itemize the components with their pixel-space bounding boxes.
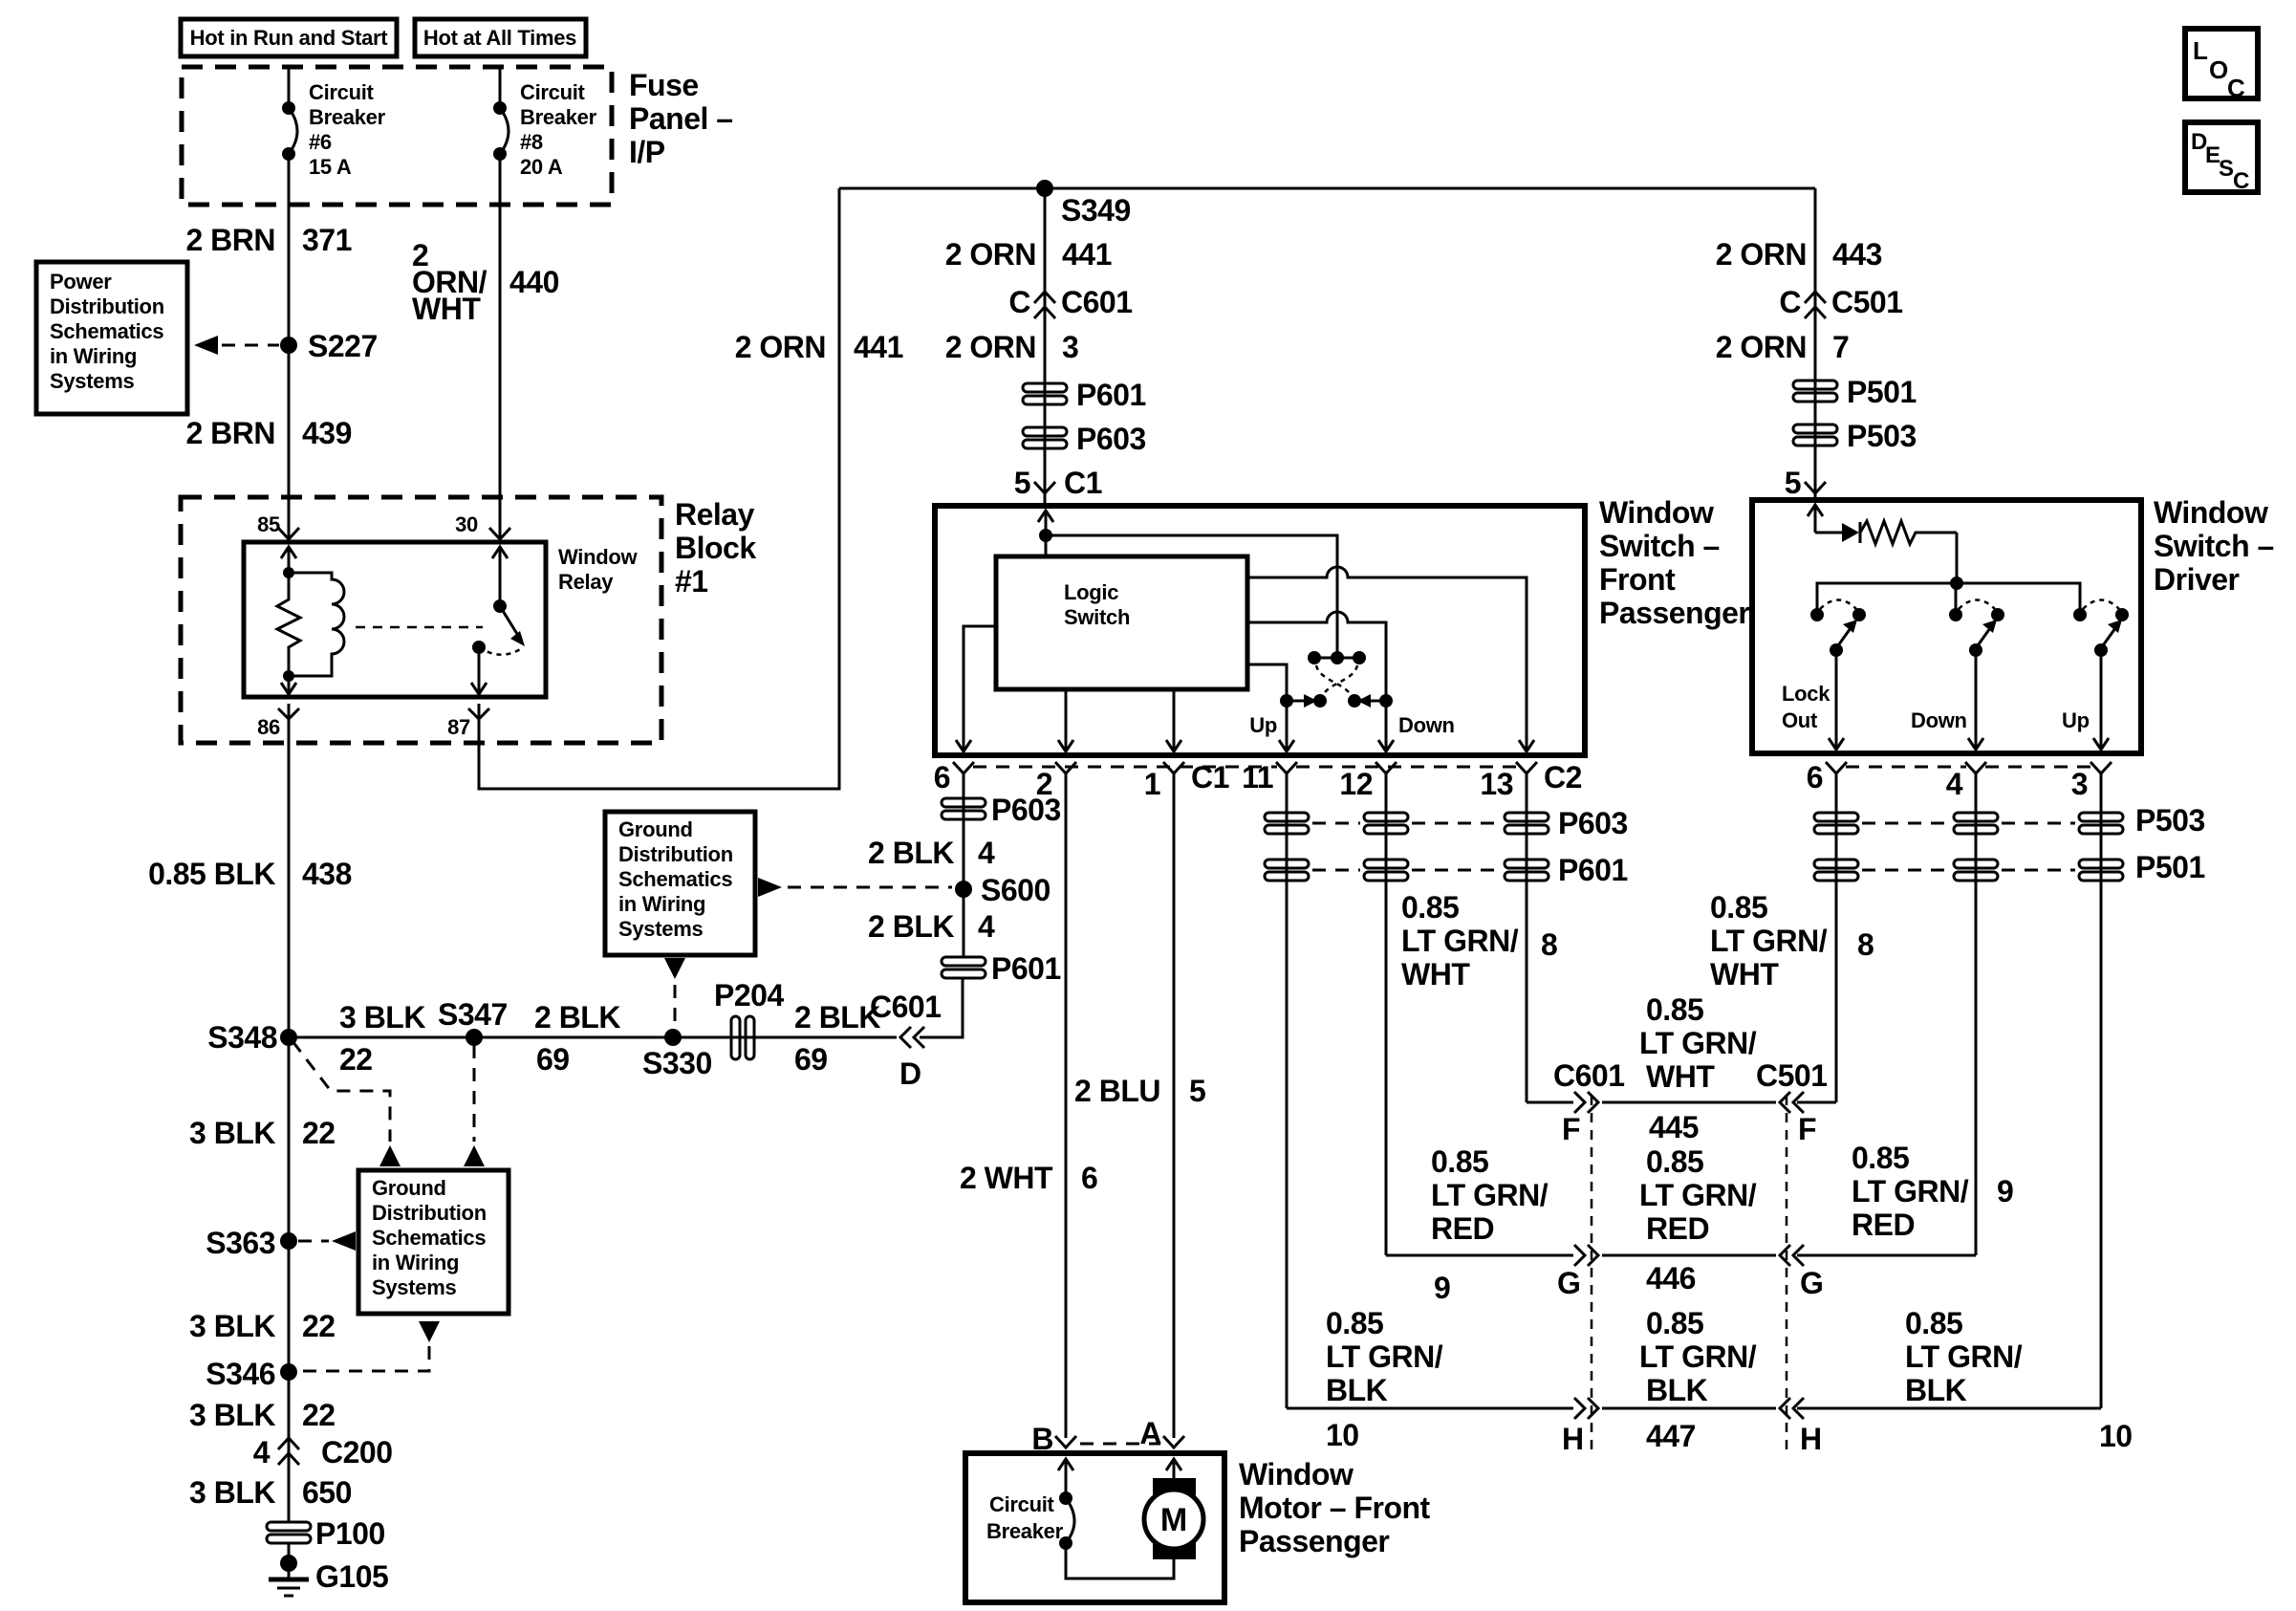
splice S363 xyxy=(206,1226,297,1260)
dashed link P601 row (passenger) xyxy=(1312,869,1360,872)
svg-text:in Wiring: in Wiring xyxy=(618,892,705,916)
row F chevrons C601 xyxy=(1574,1092,1598,1113)
svg-text:C1: C1 xyxy=(1064,466,1102,500)
svg-text:Up: Up xyxy=(1249,713,1277,737)
svg-text:4: 4 xyxy=(1946,767,1963,801)
svg-text:S227: S227 xyxy=(308,329,378,363)
reference arrow to power distribution box xyxy=(194,336,279,355)
svg-text:G105: G105 xyxy=(315,1559,388,1594)
ground bus wire S348 to C601 xyxy=(289,1036,897,1039)
svg-text:9: 9 xyxy=(1997,1174,2013,1208)
svg-text:S363: S363 xyxy=(206,1226,275,1260)
top feed wire S349 bus xyxy=(839,187,1815,190)
svg-text:Out: Out xyxy=(1782,708,1818,732)
box "Ground Distribution Schematics in Wiring Systems" (lower) xyxy=(358,1170,509,1314)
svg-text:2 ORN: 2 ORN xyxy=(1716,237,1807,272)
driver pin 3 chevron and label xyxy=(2071,762,2112,801)
wire: logic switch to pin 11 xyxy=(1247,664,1287,751)
svg-text:Distribution: Distribution xyxy=(618,842,733,866)
wire: S349 bus down to driver switch xyxy=(1814,188,1817,500)
relay pin 87 exit arrow xyxy=(471,654,487,694)
svg-text:C501: C501 xyxy=(1756,1058,1828,1093)
svg-text:Window: Window xyxy=(1599,495,1714,530)
pin 13 chevron and label, C2 xyxy=(1480,760,1582,801)
svg-text:G: G xyxy=(1800,1266,1823,1300)
svg-text:Systems: Systems xyxy=(618,917,703,941)
row H chevrons C601 xyxy=(1574,1398,1598,1419)
svg-text:3 BLK: 3 BLK xyxy=(189,1309,275,1343)
splice S330 xyxy=(642,1029,712,1080)
relay coil resistor xyxy=(277,567,300,682)
svg-text:S346: S346 xyxy=(206,1357,275,1391)
wire label 0.85 LT GRN/WHT 8 (pin 13) xyxy=(1401,890,1557,991)
wire label 2 BLK 69 (bus) xyxy=(534,1000,620,1077)
wire label 2 ORN 441 (riser) xyxy=(735,330,903,364)
motor cavity A xyxy=(1139,1416,1184,1450)
svg-text:Systems: Systems xyxy=(372,1275,456,1299)
row H chevrons C501 xyxy=(1780,1398,1804,1419)
splice S227 xyxy=(280,329,378,363)
svg-text:WHT: WHT xyxy=(412,292,481,326)
down switch (driver) xyxy=(1949,600,2004,658)
svg-text:10: 10 xyxy=(1326,1418,1359,1452)
label "Window Switch - Front Passenger" xyxy=(1599,495,1749,630)
wire label 0.85 LT GRN/BLK 447 (center) xyxy=(1639,1306,1757,1407)
svg-text:L: L xyxy=(2193,36,2208,65)
label "Window Relay" xyxy=(558,545,638,594)
connector C601 cavity D xyxy=(870,990,942,1091)
connector chevron pin 85 xyxy=(278,528,299,539)
inline connector P603 on pin 13 xyxy=(1505,813,1549,821)
svg-text:LT GRN/: LT GRN/ xyxy=(1639,1339,1757,1374)
svg-text:2 BRN: 2 BRN xyxy=(185,223,275,257)
svg-text:4: 4 xyxy=(978,909,995,944)
svg-text:69: 69 xyxy=(536,1042,570,1077)
pin 11 exit arrow xyxy=(1279,740,1294,751)
wire label 3 BLK 22 (below S348) xyxy=(189,1116,336,1150)
svg-text:2 ORN: 2 ORN xyxy=(945,330,1036,364)
wire label 3 BLK 22 (bus) xyxy=(339,1000,425,1077)
rocker dashed throws xyxy=(1316,665,1357,695)
wire label 0.85 LT GRN/RED 446 (center) xyxy=(1639,1144,1757,1246)
wire label 2 ORN 441 xyxy=(945,237,1112,272)
svg-text:Passenger: Passenger xyxy=(1239,1524,1389,1558)
svg-text:C1: C1 xyxy=(1191,760,1229,795)
pin 30 entry arrow xyxy=(492,547,508,604)
pin 6 exit arrow xyxy=(956,740,971,751)
svg-text:7: 7 xyxy=(1832,330,1849,364)
wire: hot-run feed into breaker 6 xyxy=(288,67,291,108)
circuit breaker #8 xyxy=(493,101,509,161)
wire: driver pin 4 down to row G xyxy=(1975,773,1978,1255)
label "Window Switch - Driver" xyxy=(2154,495,2274,597)
svg-text:Circuit: Circuit xyxy=(520,80,586,104)
svg-text:in Wiring: in Wiring xyxy=(372,1251,459,1274)
svg-text:S600: S600 xyxy=(981,873,1051,907)
window switch driver box xyxy=(1752,500,2141,753)
svg-text:Distribution: Distribution xyxy=(50,294,164,318)
feed entry arrow into passenger switch xyxy=(1038,511,1053,556)
svg-text:Down: Down xyxy=(1911,708,1967,732)
svg-text:LT GRN/: LT GRN/ xyxy=(1710,924,1828,958)
wire: logic switch to pin 1 xyxy=(1173,689,1176,751)
svg-text:Block: Block xyxy=(675,531,756,565)
wire label 0.85 LT GRN/BLK 10 (driver pin 3) xyxy=(1905,1306,2133,1453)
label "Circuit Breaker #8 20 A" xyxy=(520,80,597,179)
svg-text:Window: Window xyxy=(1239,1457,1354,1491)
pin 2 exit arrow xyxy=(1058,740,1073,751)
wire label 3 BLK 22 (below S346) xyxy=(189,1398,336,1432)
wire: passenger pin 6 branch down xyxy=(963,773,965,957)
svg-text:447: 447 xyxy=(1646,1419,1696,1453)
label G 446 G xyxy=(1557,1261,1823,1300)
svg-text:2 ORN: 2 ORN xyxy=(735,330,826,364)
svg-text:P603: P603 xyxy=(991,793,1061,827)
svg-text:3 BLK: 3 BLK xyxy=(339,1000,425,1034)
driver pin 6 chevron and label xyxy=(1807,760,1847,795)
svg-text:C601: C601 xyxy=(1553,1058,1625,1093)
svg-text:0.85: 0.85 xyxy=(1326,1306,1383,1340)
label H 447 H xyxy=(1562,1419,1822,1456)
svg-text:0.85 BLK: 0.85 BLK xyxy=(148,857,275,891)
svg-text:P100: P100 xyxy=(315,1516,385,1551)
svg-text:Hot in Run and Start: Hot in Run and Start xyxy=(190,26,389,50)
wire label 0.85 LT GRN/WHT 8 (driver pin 6) xyxy=(1710,890,1874,991)
svg-text:20 A: 20 A xyxy=(520,155,563,179)
svg-text:Distribution: Distribution xyxy=(372,1201,487,1225)
pin 1 chevron and label, C1 xyxy=(1144,760,1229,801)
svg-text:Circuit: Circuit xyxy=(309,80,375,104)
svg-text:4: 4 xyxy=(253,1435,271,1469)
svg-text:0.85: 0.85 xyxy=(1646,1306,1703,1340)
svg-text:LT GRN/: LT GRN/ xyxy=(1905,1339,2023,1374)
relay actuation dashed link xyxy=(356,626,483,629)
svg-text:C2: C2 xyxy=(1544,760,1582,795)
wire: feed across to rocker xyxy=(1046,535,1337,658)
wire label 0.85 LT GRN/BLK 10 (pin 11) xyxy=(1326,1306,1443,1452)
svg-text:85: 85 xyxy=(257,512,280,536)
circuit breaker #6 xyxy=(282,101,297,161)
pin 2 chevron and label xyxy=(1036,762,1076,801)
wire label 2 BLK 4 (above S600) xyxy=(868,836,995,870)
svg-text:11: 11 xyxy=(1242,760,1273,795)
connector chevron pin 87 xyxy=(468,708,489,719)
row G wire xyxy=(1386,1254,1976,1257)
svg-text:22: 22 xyxy=(302,1116,336,1150)
svg-text:C: C xyxy=(2233,168,2249,194)
svg-text:Lock: Lock xyxy=(1782,682,1830,706)
wires pins 11/12/13 down xyxy=(1286,773,1289,1408)
splice S600 xyxy=(955,873,1051,907)
svg-text:LT GRN/: LT GRN/ xyxy=(1639,1026,1757,1060)
wire: relay 87 to S349 riser xyxy=(479,188,839,789)
feed entry arrow into driver switch xyxy=(1808,505,1823,533)
inline connector P100 xyxy=(267,1516,385,1551)
row H wire xyxy=(1287,1407,2101,1410)
motor return wire xyxy=(1066,1543,1174,1578)
svg-text:Systems: Systems xyxy=(50,369,134,393)
svg-text:C: C xyxy=(1008,285,1030,319)
box "Ground Distribution Schematics in Wiring Systems" (upper) xyxy=(605,812,755,955)
reference arrow upper ground box to S330 xyxy=(664,958,685,1030)
motor A entry arrow xyxy=(1166,1459,1181,1478)
reference arrow S363 to lower ground box xyxy=(298,1231,356,1251)
wire: breaker 8 to relay pin 30 (circuit 440) xyxy=(499,154,502,538)
svg-text:2 BLK: 2 BLK xyxy=(868,836,954,870)
svg-text:P204: P204 xyxy=(714,978,784,1012)
inline connector P603 (feed) xyxy=(1023,422,1146,456)
svg-text:D: D xyxy=(899,1056,921,1091)
wire label 2 BLU 5 xyxy=(1074,1074,1205,1108)
svg-text:Ground: Ground xyxy=(372,1176,446,1200)
connector C601 cavity C xyxy=(1008,285,1132,319)
wire label 3 BLK 22 (below S363) xyxy=(189,1309,336,1343)
wire label 0.85 BLK 438 xyxy=(148,857,352,891)
svg-text:H: H xyxy=(1562,1422,1584,1456)
driver lockout diode xyxy=(1815,522,1860,543)
svg-text:8: 8 xyxy=(1541,927,1557,962)
svg-text:BLK: BLK xyxy=(1646,1373,1708,1407)
svg-text:F: F xyxy=(1798,1112,1816,1146)
wire label 2 BLK 69 (after P204) xyxy=(794,1000,880,1077)
wire: breaker 6 to relay pin 85 (circuit 371/439) xyxy=(288,154,291,538)
lock out switch xyxy=(1810,600,1866,658)
row F wire xyxy=(1527,1101,1836,1104)
svg-text:Switch: Switch xyxy=(1064,605,1130,629)
label F 445 F xyxy=(1562,1110,1816,1146)
reference arrow upper ground box to S600 xyxy=(758,878,952,897)
pin 1 exit arrow xyxy=(1166,740,1181,751)
svg-text:0.85: 0.85 xyxy=(1401,890,1459,925)
wire label 0.85 LT GRN/WHT 445 (center) xyxy=(1639,992,1757,1094)
svg-text:Hot at All Times: Hot at All Times xyxy=(423,26,576,50)
wire: resistor to switch bus xyxy=(1956,533,1959,583)
svg-text:Window: Window xyxy=(558,545,638,569)
svg-text:2 BLK: 2 BLK xyxy=(794,1000,880,1034)
svg-text:LT GRN/: LT GRN/ xyxy=(1639,1178,1757,1212)
arrowhead into lower ground box (right) xyxy=(464,1145,485,1166)
svg-text:13: 13 xyxy=(1480,767,1513,801)
svg-text:P501: P501 xyxy=(2135,850,2205,884)
wire: S348 down to G105 xyxy=(288,1037,291,1522)
wire: logic switch to pin 6 xyxy=(964,626,996,751)
svg-text:446: 446 xyxy=(1646,1261,1696,1295)
label "Fuse Panel - I/P" xyxy=(629,68,733,169)
svg-text:439: 439 xyxy=(302,416,352,450)
splice S346 xyxy=(206,1357,297,1391)
inline connector P503 on driver pin 4 xyxy=(1954,813,1998,821)
wire: pin 1 down to motor A xyxy=(1173,773,1176,1438)
svg-text:445: 445 xyxy=(1649,1110,1699,1144)
svg-text:M: M xyxy=(1160,1502,1187,1538)
svg-text:2 BLK: 2 BLK xyxy=(534,1000,620,1034)
relay switch xyxy=(472,599,525,655)
svg-text:2 BRN: 2 BRN xyxy=(185,416,275,450)
wire label 2 ORN 7 xyxy=(1716,330,1850,364)
svg-text:RED: RED xyxy=(1646,1211,1709,1246)
svg-text:Switch –: Switch – xyxy=(2154,529,2274,563)
svg-text:S349: S349 xyxy=(1061,193,1131,228)
svg-text:3: 3 xyxy=(1062,330,1078,364)
svg-text:Front: Front xyxy=(1599,562,1676,597)
svg-text:Schematics: Schematics xyxy=(618,867,732,891)
svg-text:0.85: 0.85 xyxy=(1646,1144,1703,1179)
svg-text:C601: C601 xyxy=(1061,285,1133,319)
svg-text:LT GRN/: LT GRN/ xyxy=(1326,1339,1443,1374)
label box "Hot at All Times" xyxy=(415,19,586,56)
svg-text:22: 22 xyxy=(302,1398,336,1432)
window switch front passenger box xyxy=(935,506,1585,755)
connector C200 cavity 4 xyxy=(253,1435,393,1469)
dashed reference S348 to lower ground box xyxy=(292,1041,390,1142)
motor M symbol xyxy=(1144,1478,1203,1559)
label Lock Out xyxy=(1782,682,1830,732)
svg-text:Circuit: Circuit xyxy=(989,1492,1055,1516)
svg-text:87: 87 xyxy=(447,715,470,739)
dashed link P603 row (passenger) xyxy=(1312,822,1360,825)
wire: S349 down to C601 xyxy=(1044,188,1047,506)
connector chevron pin 30 xyxy=(489,528,510,539)
relay pin 86 exit arrow xyxy=(281,676,296,694)
wire label 2 ORN 443 xyxy=(1716,237,1882,272)
svg-text:0.85: 0.85 xyxy=(1905,1306,1962,1340)
svg-text:5: 5 xyxy=(1189,1074,1205,1108)
dashed link P501 row (driver) xyxy=(1862,869,1950,872)
svg-text:Schematics: Schematics xyxy=(372,1226,486,1250)
motor circuit breaker xyxy=(1059,1491,1074,1550)
svg-text:P601: P601 xyxy=(1558,853,1628,887)
svg-text:P503: P503 xyxy=(1847,419,1917,453)
connector C1 cavity 5 (passenger) xyxy=(1014,466,1102,500)
connector chevron pin 86 xyxy=(278,708,299,719)
svg-text:6: 6 xyxy=(1807,760,1823,795)
svg-text:0.85: 0.85 xyxy=(1710,890,1767,925)
DESC box xyxy=(2185,122,2258,194)
svg-text:4: 4 xyxy=(978,836,995,870)
svg-text:3 BLK: 3 BLK xyxy=(189,1475,275,1510)
connector C501 cavity C xyxy=(1779,285,1902,319)
window relay box xyxy=(244,542,546,697)
LOC box xyxy=(2185,29,2258,102)
svg-text:5: 5 xyxy=(1014,466,1030,500)
wire: lock out to pin 6 xyxy=(1835,650,1838,750)
inline connector P501 (feed) xyxy=(1793,375,1917,409)
svg-text:Up: Up xyxy=(2062,708,2090,732)
svg-text:443: 443 xyxy=(1832,237,1882,272)
svg-text:C501: C501 xyxy=(1831,285,1903,319)
connector row below passenger switch xyxy=(973,766,1517,769)
svg-text:0.85: 0.85 xyxy=(1431,1144,1488,1179)
inline connector P603 on pin 11 xyxy=(1265,813,1309,821)
wire: pin 2 down to motor B xyxy=(1065,773,1068,1438)
svg-text:C: C xyxy=(1779,285,1801,319)
wire: down switch to pin 4 xyxy=(1975,650,1978,750)
svg-text:Ground: Ground xyxy=(618,817,693,841)
wire: relay 86 down to S348 xyxy=(288,704,291,1037)
inline connector P501 on driver pin 3 xyxy=(2079,860,2123,868)
svg-text:S347: S347 xyxy=(438,997,508,1032)
svg-text:Down: Down xyxy=(1398,713,1455,737)
wire label 0.85 LT GRN/RED 9 (pin 12) xyxy=(1431,1144,1549,1305)
svg-text:P601: P601 xyxy=(1076,378,1146,412)
motor cavity B xyxy=(1031,1422,1076,1456)
svg-text:440: 440 xyxy=(509,265,559,299)
relay block #1 dashed box xyxy=(181,497,661,743)
svg-text:Breaker: Breaker xyxy=(309,105,386,129)
svg-text:P503: P503 xyxy=(2135,803,2205,838)
driver pin 4 exit arrow xyxy=(1968,738,1983,750)
svg-text:1: 1 xyxy=(1144,767,1160,801)
inline connector P601 on pin 13 xyxy=(1505,860,1549,868)
svg-text:371: 371 xyxy=(302,223,352,257)
label "Window Motor - Front Passenger" xyxy=(1239,1457,1431,1558)
svg-text:I/P: I/P xyxy=(629,135,665,169)
wire label 0.85 LT GRN/RED 9 (driver pin 4) xyxy=(1852,1141,2013,1242)
splice S349 xyxy=(1036,180,1131,228)
wire: logic switch to pin 2 xyxy=(1065,689,1068,751)
up switch (driver) xyxy=(2073,600,2129,658)
driver pin 3 exit arrow xyxy=(2093,738,2109,750)
row F chevrons C501 xyxy=(1780,1092,1804,1113)
svg-text:S348: S348 xyxy=(207,1020,277,1055)
svg-text:C601: C601 xyxy=(870,990,942,1024)
svg-text:Fuse: Fuse xyxy=(629,68,699,102)
svg-text:6: 6 xyxy=(934,760,950,795)
driver switch bus xyxy=(1817,577,2080,615)
svg-text:LT GRN/: LT GRN/ xyxy=(1431,1178,1549,1212)
rocker switch common bar xyxy=(1308,651,1366,664)
inline connector P601 on pin 12 xyxy=(1364,860,1408,868)
svg-text:22: 22 xyxy=(302,1309,336,1343)
box "Power Distribution Schematics in Wiring Systems" xyxy=(36,262,187,414)
svg-text:8: 8 xyxy=(1857,927,1874,962)
svg-text:0.85: 0.85 xyxy=(1646,992,1703,1027)
svg-text:P603: P603 xyxy=(1558,806,1628,840)
svg-text:3: 3 xyxy=(2071,767,2088,801)
svg-text:86: 86 xyxy=(257,715,280,739)
svg-text:2 WHT: 2 WHT xyxy=(960,1161,1053,1195)
svg-text:Logic: Logic xyxy=(1064,580,1118,604)
label "Circuit Breaker" (motor) xyxy=(986,1492,1064,1543)
inline connector P503 on driver pin 6 xyxy=(1814,813,1858,821)
wire label 2 ORN 3 xyxy=(945,330,1079,364)
svg-text:Breaker: Breaker xyxy=(520,105,597,129)
window motor box xyxy=(965,1453,1224,1602)
svg-text:650: 650 xyxy=(302,1475,352,1510)
svg-text:6: 6 xyxy=(1081,1161,1097,1195)
svg-text:O: O xyxy=(2209,55,2228,84)
svg-text:G: G xyxy=(1557,1266,1580,1300)
svg-text:Relay: Relay xyxy=(675,497,755,532)
svg-text:in Wiring: in Wiring xyxy=(50,344,137,368)
wire label 2 BRN 371 xyxy=(185,223,351,257)
svg-text:BLK: BLK xyxy=(1326,1373,1388,1407)
svg-text:S: S xyxy=(2219,156,2234,182)
splice S347 xyxy=(438,997,508,1046)
connector cavity 5 (driver) xyxy=(1785,466,1826,500)
label box "Hot in Run and Start" xyxy=(181,19,397,56)
svg-text:5: 5 xyxy=(1785,466,1801,500)
inline connector P204 xyxy=(714,978,784,1059)
pin 13 exit arrow xyxy=(1519,740,1534,751)
relay coil xyxy=(289,573,344,676)
svg-text:441: 441 xyxy=(1062,237,1112,272)
svg-text:#8: #8 xyxy=(520,130,543,154)
svg-text:Window: Window xyxy=(2154,495,2268,530)
svg-text:12: 12 xyxy=(1339,767,1373,801)
svg-text:Driver: Driver xyxy=(2154,562,2240,597)
svg-text:22: 22 xyxy=(339,1042,373,1077)
